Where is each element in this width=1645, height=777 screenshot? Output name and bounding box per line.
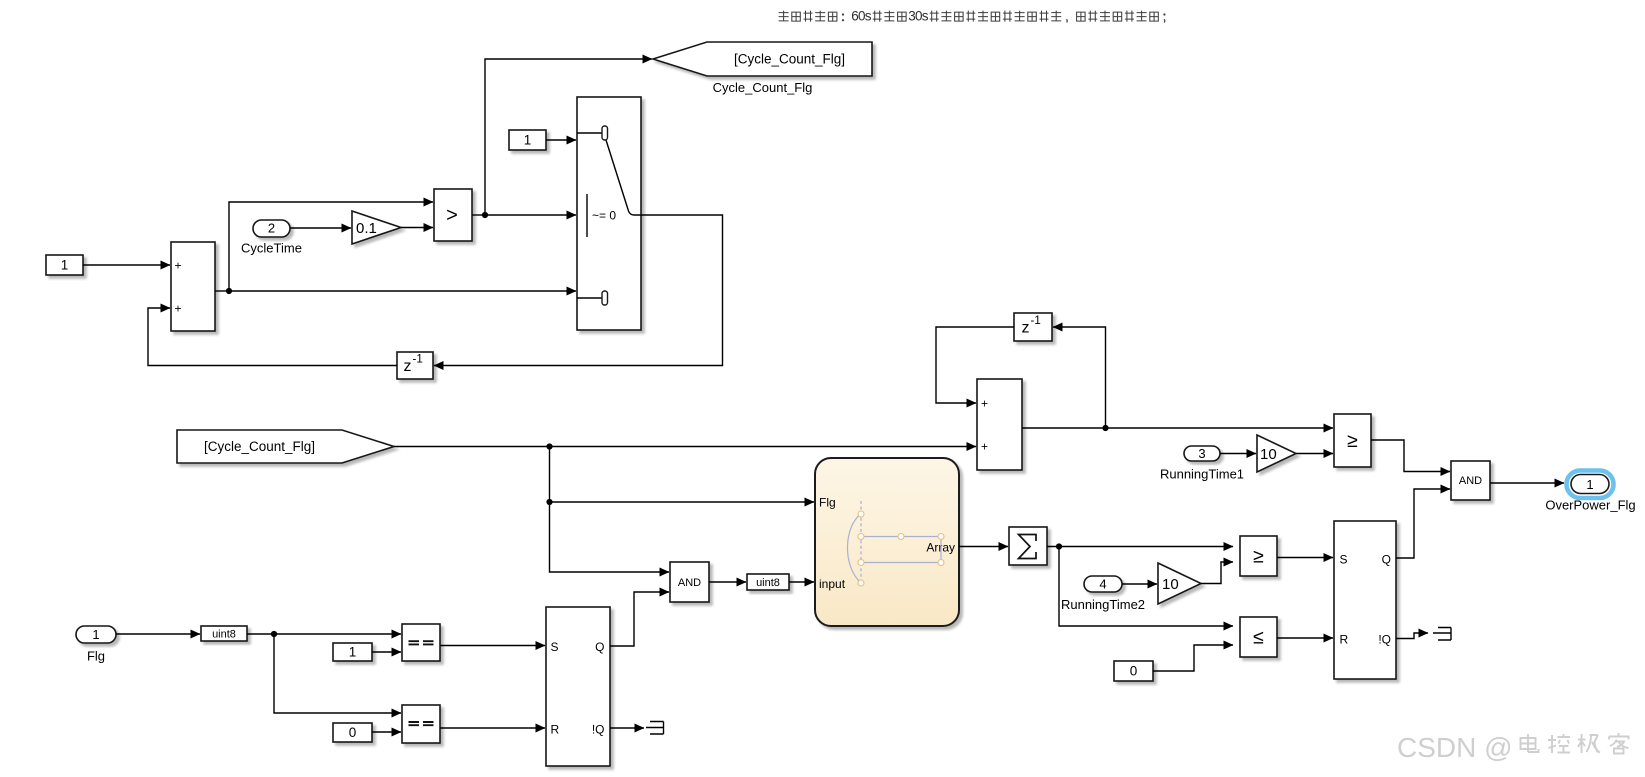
wire J4 to subsystem Flg port <box>550 501 815 503</box>
constant C3 value 1 <box>333 643 372 661</box>
sum of elements SOE (sigma) <box>1009 527 1047 565</box>
annotation title <box>779 9 1166 24</box>
from tag Cycle_Count_Flg <box>177 430 394 463</box>
wire J7 down to RelOp4 input1 <box>1059 547 1233 627</box>
wire AND1 to uint8 DTC1 <box>709 581 746 583</box>
svg-text:≥: ≥ <box>1253 545 1264 567</box>
add block Add2 <box>977 379 1022 470</box>
svg-text:!Q: !Q <box>592 723 605 737</box>
gain G3 value 10 <box>1158 563 1201 604</box>
svg-text:-1: -1 <box>413 354 423 366</box>
svg-text:Flg: Flg <box>819 496 836 510</box>
relational operator RelOp4 <= <box>1240 617 1277 657</box>
svg-text:+: + <box>981 396 988 410</box>
svg-text:1: 1 <box>1586 477 1593 492</box>
svg-text:0: 0 <box>1130 664 1138 679</box>
wire J3 down to J4 <box>549 447 551 503</box>
wire C1 to Sum1 <box>83 264 170 266</box>
svg-text:+: + <box>981 439 988 453</box>
data type conversion uint8 DTC2 <box>201 626 247 641</box>
svg-text:S: S <box>1340 553 1348 567</box>
wire Gain1 to RelOp1 input2 <box>401 227 433 229</box>
terminator T2 <box>1433 628 1451 641</box>
svg-text:Cycle_Count_Flg: Cycle_Count_Flg <box>713 80 813 95</box>
svg-text:AND: AND <box>678 577 701 589</box>
wire subsystem Array out to SumOfElements <box>959 546 1008 548</box>
wire SOE out to RelOp3 input1 <box>1047 546 1233 548</box>
svg-text:1: 1 <box>61 258 69 273</box>
relational operator EQ2 == <box>402 705 440 743</box>
svg-text:+: + <box>175 258 182 272</box>
node J2 <box>482 212 488 218</box>
svg-text:>: > <box>446 204 458 226</box>
svg-text:Q: Q <box>1382 553 1391 567</box>
wire From tag to Add2 input2 <box>394 446 976 448</box>
wire CycleTime to Gain1 <box>290 227 351 229</box>
svg-text:0.1: 0.1 <box>356 220 377 237</box>
svg-text:1: 1 <box>524 133 532 148</box>
subsystem U1 (stateflow chart) <box>815 458 959 626</box>
wire SR1 !Q to terminator T1 <box>610 727 644 729</box>
wire inport3 to Gain2 <box>1220 453 1256 455</box>
outport 1 OverPower_Flg (selected highlight) <box>1545 471 1635 513</box>
svg-text:Q: Q <box>595 640 604 654</box>
wire DTC2 out to J5 and ==1 <box>247 633 401 635</box>
wire RelOp4 to SR2 R <box>1277 637 1333 639</box>
relational operator EQ1 == <box>402 624 440 661</box>
wire C3 to ==1 input2 <box>372 651 401 653</box>
wire EQ1 to SR1 S <box>440 645 545 647</box>
wire C2 to Switch1 input1 <box>546 139 576 141</box>
S-R flip-flop SR2 <box>1334 521 1396 679</box>
inport 4 RunningTime2 <box>1061 576 1145 612</box>
logical operator AND1 <box>670 562 709 602</box>
data type conversion uint8 DTC1 <box>747 574 789 590</box>
svg-text:3: 3 <box>1198 446 1205 461</box>
constant C4 value 0 <box>333 723 372 742</box>
wire SR1 Q to AND1 input2 <box>610 592 669 646</box>
wire J5 down to ==2 input1 <box>274 634 401 713</box>
node J4 <box>546 499 552 505</box>
wire Switch1 out to UnitDelay1 (feedback) <box>434 215 723 366</box>
svg-text:s: s <box>865 9 872 24</box>
inport 3 RunningTime1 <box>1160 446 1244 482</box>
wire Sum1 out to junction <box>215 290 229 292</box>
svg-text:[Cycle_Count_Flg]: [Cycle_Count_Flg] <box>204 439 315 454</box>
node J3 <box>546 443 552 449</box>
svg-text:CycleTime: CycleTime <box>241 241 302 256</box>
node J1 <box>226 288 232 294</box>
svg-text:Flg: Flg <box>87 649 105 664</box>
node J7 <box>1056 543 1062 549</box>
svg-text:1: 1 <box>349 645 357 660</box>
svg-text:2: 2 <box>268 221 275 236</box>
svg-text:z: z <box>404 358 412 375</box>
svg-text:CSDN @: CSDN @ <box>1397 732 1513 763</box>
inport 2 CycleTime <box>241 220 302 256</box>
constant C5 value 0 <box>1114 661 1153 681</box>
terminator T1 <box>646 722 664 735</box>
goto tag Cycle_Count_Flg <box>653 42 872 95</box>
svg-text:S: S <box>551 640 559 654</box>
svg-text:10: 10 <box>1162 576 1179 593</box>
wire UD2 out to Add2 input1 <box>936 327 1014 403</box>
svg-text:uint8: uint8 <box>212 628 236 640</box>
wire J2 right to Switch1 input2 <box>485 214 576 216</box>
node J5 <box>271 631 277 637</box>
constant C2 value 1 <box>509 130 546 150</box>
wire Gain2 to RelOp2 input2 <box>1296 453 1333 455</box>
wire DTC1 to subsystem input port <box>789 581 814 583</box>
svg-text:[Cycle_Count_Flg]: [Cycle_Count_Flg] <box>734 52 845 67</box>
wire J2 up to Goto tag <box>485 59 652 215</box>
constant C1 value 1 <box>46 255 83 275</box>
svg-text:R: R <box>551 723 560 737</box>
wire C4 to ==2 input2 <box>372 731 401 733</box>
wire RelOp2 to AND2 input1 <box>1371 440 1450 472</box>
svg-text:input: input <box>819 577 846 591</box>
gain G1 value 0.1 <box>352 211 401 244</box>
wire UD1 out to Sum1 input2 <box>148 308 397 366</box>
svg-text:10: 10 <box>1260 446 1277 463</box>
svg-text:uint8: uint8 <box>756 577 780 589</box>
node J6 <box>1102 425 1108 431</box>
svg-text:≤: ≤ <box>1253 626 1264 648</box>
wire C5 to RelOp4 input2 <box>1153 645 1233 671</box>
wire SR2 Q to AND2 input2 <box>1396 489 1450 558</box>
unit delay UD1 z^-1 <box>397 352 433 379</box>
svg-text:RunningTime1: RunningTime1 <box>1160 467 1244 482</box>
wire J4 down to AND1 input1 <box>550 502 670 572</box>
sum block Sum1 <box>171 242 215 331</box>
wire J6 up to UD2 input <box>1053 327 1106 428</box>
relational operator RelOp2 >= <box>1334 414 1371 467</box>
wire inport4 to Gain3 <box>1122 583 1157 585</box>
logical operator AND2 <box>1451 461 1490 500</box>
svg-text:AND: AND <box>1459 475 1482 487</box>
svg-text:OverPower_Flg: OverPower_Flg <box>1545 498 1635 513</box>
wire Gain3 to RelOp3 input2 <box>1201 562 1233 584</box>
wire J1 right to Switch1 input3 <box>229 290 576 292</box>
svg-text:RunningTime2: RunningTime2 <box>1061 597 1145 612</box>
svg-text:!Q: !Q <box>1378 633 1391 647</box>
svg-text:+: + <box>175 301 182 315</box>
S-R flip-flop SR1 <box>546 607 610 766</box>
svg-text:~= 0: ~= 0 <box>592 208 616 222</box>
relational operator RelOp1 > <box>434 189 472 241</box>
gain G2 value 10 <box>1257 435 1296 472</box>
wire EQ2 to SR1 R <box>440 727 545 729</box>
svg-text:≥: ≥ <box>1347 430 1358 452</box>
svg-text:z: z <box>1022 320 1030 337</box>
svg-text:-1: -1 <box>1031 315 1041 327</box>
wire Add2 out to RelOp2 input1 <box>1022 427 1333 429</box>
watermark CSDN <box>1397 732 1629 763</box>
wire RelOp3 to SR2 S <box>1277 557 1333 559</box>
wire inport1 to uint8 <box>116 633 200 635</box>
unit delay UD2 z^-1 <box>1014 313 1052 341</box>
wire RelOp1 out to junction J2 <box>472 214 485 216</box>
svg-text:s: s <box>922 9 929 24</box>
switch block Switch1 <box>577 97 641 330</box>
wire AND2 to outport <box>1490 482 1564 484</box>
svg-text:4: 4 <box>1099 577 1106 592</box>
inport 1 Flg <box>76 626 116 664</box>
wire SR2 !Q to terminator T2 <box>1396 633 1428 639</box>
relational operator RelOp3 >= <box>1240 536 1277 576</box>
wire J1 up to RelOp1 input1 <box>229 202 433 291</box>
svg-text:0: 0 <box>349 725 357 740</box>
svg-text:1: 1 <box>92 627 99 642</box>
svg-text:R: R <box>1340 633 1349 647</box>
